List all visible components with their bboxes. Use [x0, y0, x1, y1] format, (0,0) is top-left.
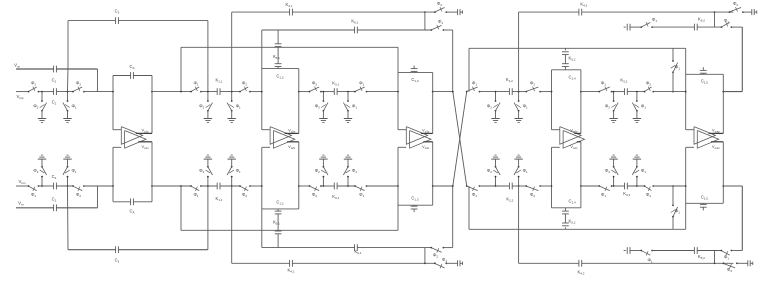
capacitor K61 bottom: [355, 244, 362, 255]
switch phi2 bottom: [239, 185, 251, 198]
capacitor C14: [562, 55, 576, 81]
wire stage5 bottom right edge: [722, 142, 724, 204]
capacitor C3 bottom: [115, 246, 120, 263]
capacitor C13 bottom: [411, 196, 419, 213]
wire Vinn lead: [16, 185, 29, 187]
wire: [653, 91, 685, 93]
wire row to stage1: [84, 91, 113, 93]
wire: [321, 185, 334, 187]
switch phi1 bottom: [466, 185, 481, 198]
wire stage3 right edge: [432, 72, 434, 133]
switch phi1 on line C: [430, 19, 444, 31]
capacitor C13: [411, 66, 419, 84]
wire line C bottom right leg: [452, 185, 454, 248]
wire line F bottom stub: [624, 250, 626, 252]
wire: [299, 185, 310, 187]
wire stage4 bottom inner edge: [552, 207, 581, 209]
wire line F stub: [624, 26, 626, 28]
wire riser A to C: [424, 12, 426, 30]
wire: [652, 26, 694, 28]
wire stage5 loop edge: [686, 73, 724, 75]
capacitor C14 bottom: [562, 199, 576, 224]
wire stage2 inner edge: [262, 68, 299, 70]
wire stage3 bottom spine: [397, 147, 399, 230]
switch phi2 branch bottom + ground: [199, 155, 212, 187]
capacitor CA: [130, 64, 135, 79]
wire: [250, 185, 262, 187]
switch phi2: [239, 81, 251, 93]
wire: [581, 91, 599, 93]
capacitor K31 bottom: [332, 183, 339, 200]
capacitor K51: [273, 30, 282, 60]
wire riser D to F: [714, 12, 716, 27]
wire: [630, 26, 641, 28]
wire: [630, 250, 641, 252]
wire line D bottom: [519, 262, 734, 264]
node Vrp input terminal: [14, 63, 20, 69]
wire C3 bottom left leg: [67, 186, 70, 250]
op-amp A2: [262, 127, 299, 151]
wire: [743, 11, 752, 13]
wire stage2 bottom inner edge: [262, 208, 299, 210]
wire stage5 output stub: [723, 91, 742, 93]
wire Vrp aux line: [16, 68, 54, 70]
op-amp A4: [552, 127, 585, 151]
wire: [443, 29, 452, 31]
wire: [446, 11, 457, 13]
wire: [731, 26, 742, 28]
wire stage1 top edge: [113, 75, 152, 77]
op-amp A3: [398, 127, 433, 151]
switch phi1: [190, 81, 202, 93]
wire stage4 inner edge: [552, 69, 581, 71]
wire: [512, 185, 526, 187]
switch phi1: [354, 81, 367, 93]
switch phi1 bottom: [190, 185, 202, 198]
switch phi1: [466, 81, 481, 93]
capacitor K11 bottom: [216, 183, 223, 202]
switch phi1 branch + ground: [514, 91, 528, 123]
wire: [480, 91, 510, 93]
wire line F bottom right leg: [741, 186, 743, 251]
switch phi1 bottom: [598, 185, 612, 198]
wire: [581, 185, 599, 187]
capacitor C12: [275, 47, 284, 79]
switch phi2 reset branch bottom + ground: [33, 155, 46, 187]
wire aux corner down: [97, 69, 99, 92]
wire line C bottom rail: [262, 247, 432, 249]
wire riser A to C bottom: [424, 248, 426, 264]
capacitor K42 bottom: [578, 260, 585, 276]
capacitor K31: [332, 81, 339, 96]
wire stage5 bottom output stub: [723, 185, 742, 187]
switch phi2 branch bottom + ground: [605, 155, 618, 187]
switch phi1 on line F bottom: [640, 250, 653, 264]
wire: [152, 185, 191, 187]
wire stage5 right edge: [722, 74, 724, 133]
wire: [433, 185, 453, 187]
capacitor K11: [216, 78, 223, 96]
wire stage1 spine: [112, 76, 114, 130]
wire: [201, 91, 217, 93]
wire line A bottom left leg: [231, 186, 233, 263]
wire: [220, 91, 240, 93]
wire: [433, 91, 453, 93]
wire: [480, 185, 510, 187]
wire line A: [232, 11, 435, 13]
wire C3 right leg: [207, 21, 209, 92]
capacitor damp ref right bottom: [748, 260, 753, 266]
wire: [652, 250, 694, 252]
switch phi2 series bottom: [72, 185, 85, 198]
wire: [612, 185, 625, 187]
switch phi2 reset branch + ground: [33, 91, 46, 123]
switch phi2 bottom: [644, 185, 655, 198]
wire: [56, 185, 73, 187]
switch phi1 on line F: [640, 17, 657, 28]
switch phi1 branch bottom + ground: [343, 155, 357, 187]
wire stage2 right edge: [298, 69, 300, 134]
wire stage1 bottom edge: [113, 201, 152, 203]
switch phi1 on line F bottom right: [721, 250, 733, 261]
capacitor C15 bottom: [700, 195, 708, 211]
switch phi1 branch + ground: [343, 91, 357, 123]
switch phi1 vertical stage5 reset: [671, 48, 681, 92]
wire stage4 spine: [551, 70, 553, 130]
switch phi1 branch + ground: [227, 91, 241, 123]
capacitor C12 bottom: [275, 200, 284, 231]
wire aux bottom corner up: [97, 186, 99, 208]
switch phi2 branch + ground: [605, 91, 618, 123]
wire: [540, 91, 551, 93]
wire C3 top rail: [68, 20, 208, 22]
capacitor CA bottom: [130, 198, 135, 214]
wire line C right leg: [452, 30, 454, 93]
wire: [321, 91, 334, 93]
switch phi1 input sampling bottom: [28, 185, 40, 198]
wire: [367, 91, 399, 93]
wire stage1 bottom spine: [112, 147, 114, 202]
wire line B bottom rail: [181, 229, 398, 231]
wire: [56, 91, 73, 93]
switch phi2 bottom: [309, 185, 322, 198]
switch phi1 branch + ground: [632, 91, 646, 123]
capacitor C3: [115, 9, 120, 25]
wire C3 left leg: [67, 21, 70, 92]
wire: [201, 185, 217, 187]
capacitor damp ref right: [752, 9, 757, 15]
switch phi2 branch bottom + ground: [487, 155, 500, 187]
node Vinn input terminal: [18, 179, 25, 185]
switch phi2 branch + ground: [315, 91, 328, 123]
switch phi2 series: [72, 81, 85, 93]
capacitor damp ref bottom: [458, 260, 463, 266]
capacitor K62 on line F bottom: [694, 247, 705, 260]
wire stage3 loop edge: [398, 71, 433, 73]
wire stage5 spine: [685, 48, 687, 129]
switch phi2 damp: [434, 1, 447, 13]
capacitor damp ref: [458, 9, 463, 15]
wire line E bottom left leg: [468, 186, 470, 229]
capacitor K52 bottom: [562, 219, 576, 230]
capacitor K7 reset: [627, 24, 630, 31]
wire line B left leg: [180, 47, 182, 92]
wire: [737, 262, 748, 264]
switch phi2: [525, 81, 541, 93]
switch phi2 damp: [729, 1, 744, 13]
wire stage5 bottom loop edge: [686, 202, 724, 204]
wire: [612, 91, 625, 93]
wire: [337, 91, 355, 93]
switch phi1: [598, 81, 612, 93]
wire stage2 spine: [261, 30, 263, 130]
wire line A bottom: [232, 262, 435, 264]
capacitor C1 bottom: [52, 197, 57, 212]
capacitor K32: [620, 78, 627, 96]
wire row to stage1 bottom: [84, 185, 113, 187]
wire Vrn aux line bottom: [16, 207, 54, 209]
capacitor K12: [506, 77, 513, 95]
wire stage4 bottom right edge: [580, 142, 582, 208]
op-amp A1: [113, 127, 152, 151]
wire: [697, 250, 721, 252]
switch phi2 branch + ground: [487, 91, 500, 123]
switch phi2: [644, 81, 655, 93]
wire line E bottom rail: [469, 228, 686, 230]
capacitor C2 bottom: [52, 174, 57, 189]
wire stage1 right edge: [151, 76, 153, 134]
switch phi1 on line C bottom: [430, 247, 447, 263]
wire stage3 bottom right edge: [432, 142, 434, 205]
node Vinp input terminal: [16, 94, 23, 100]
wire Vinp lead: [16, 91, 29, 93]
switch phi2 damp bottom: [433, 253, 447, 269]
switch phi1 bottom: [354, 185, 367, 198]
wire: [446, 262, 457, 264]
wire line D: [519, 11, 734, 13]
op-amp A5: [686, 127, 724, 151]
wire stage4 bottom spine: [551, 147, 553, 208]
wire stage4 right edge: [580, 70, 582, 134]
switch phi1 reset branch + ground: [63, 91, 77, 123]
capacitor K42: [579, 2, 588, 16]
capacitor K62 on line F: [694, 17, 705, 31]
capacitor K7 reset bottom: [627, 247, 630, 254]
wire line B rail: [181, 46, 398, 48]
wire line D left leg: [518, 12, 520, 92]
wire stage3 spine: [397, 47, 399, 129]
wire stage3 bottom loop edge: [398, 204, 433, 206]
capacitor K52: [562, 48, 576, 61]
wire line E left leg: [468, 48, 470, 91]
wire line F right leg: [741, 27, 743, 92]
wire cross diagonal up: [452, 92, 467, 187]
wire stage5 bottom spine: [685, 147, 687, 229]
wire riser D to F bottom: [714, 251, 716, 264]
switch phi1 branch bottom + ground: [632, 155, 646, 187]
capacitor K61: [351, 19, 358, 34]
wire: [152, 91, 191, 93]
wire line D bottom left leg: [518, 186, 520, 263]
wire: [250, 91, 262, 93]
switch phi1 on line F right: [721, 18, 733, 28]
wire: [731, 250, 742, 252]
wire cross diagonal down: [452, 91, 467, 186]
wire: [443, 247, 452, 249]
wire C3 bottom right leg: [207, 186, 209, 250]
switch phi2 damp bottom: [723, 262, 738, 273]
wire line C rail: [262, 29, 432, 31]
switch phi1 reset branch bottom + ground: [63, 155, 77, 187]
wire: [697, 26, 721, 28]
wire: [39, 185, 54, 187]
wire: [653, 185, 685, 187]
switch phi2 branch + ground: [199, 91, 212, 123]
wire stage2 bottom spine: [261, 147, 263, 247]
wire stage1 bottom right edge: [151, 142, 153, 202]
capacitor K32 bottom: [623, 183, 630, 197]
node Vrn input terminal: [18, 201, 24, 207]
wire stage2 bottom right edge: [298, 142, 300, 209]
capacitor K41 bottom: [288, 260, 295, 274]
wire: [627, 91, 644, 93]
capacitor C15: [700, 67, 708, 84]
wire: [299, 91, 310, 93]
wire line E rail: [469, 47, 686, 49]
switch phi1 branch bottom + ground: [227, 155, 241, 187]
capacitor K51 bottom: [273, 220, 282, 248]
wire: [220, 185, 240, 187]
wire line A left leg: [231, 12, 233, 92]
switch phi1 vertical stage5 reset bottom: [671, 185, 681, 229]
switch phi2: [309, 81, 322, 93]
switch phi1 input sampling: [28, 81, 40, 93]
wire: [39, 91, 54, 93]
wire line B bottom left leg: [180, 185, 182, 230]
wire: [367, 185, 399, 187]
capacitor K12 bottom: [506, 183, 513, 203]
wire aux bottom to corner: [56, 207, 97, 209]
wire C3 bottom rail: [68, 249, 208, 251]
capacitor K41: [286, 2, 293, 16]
capacitor C1: [52, 66, 57, 84]
capacitor C2: [52, 88, 57, 105]
wire: [512, 91, 526, 93]
wire: [627, 185, 644, 187]
wire aux line to corner: [56, 68, 97, 70]
wire: [540, 185, 551, 187]
switch phi2 bottom: [525, 185, 541, 198]
wire: [337, 185, 355, 187]
switch phi2 branch bottom + ground: [315, 155, 328, 187]
switch phi1 branch bottom + ground: [514, 155, 528, 187]
